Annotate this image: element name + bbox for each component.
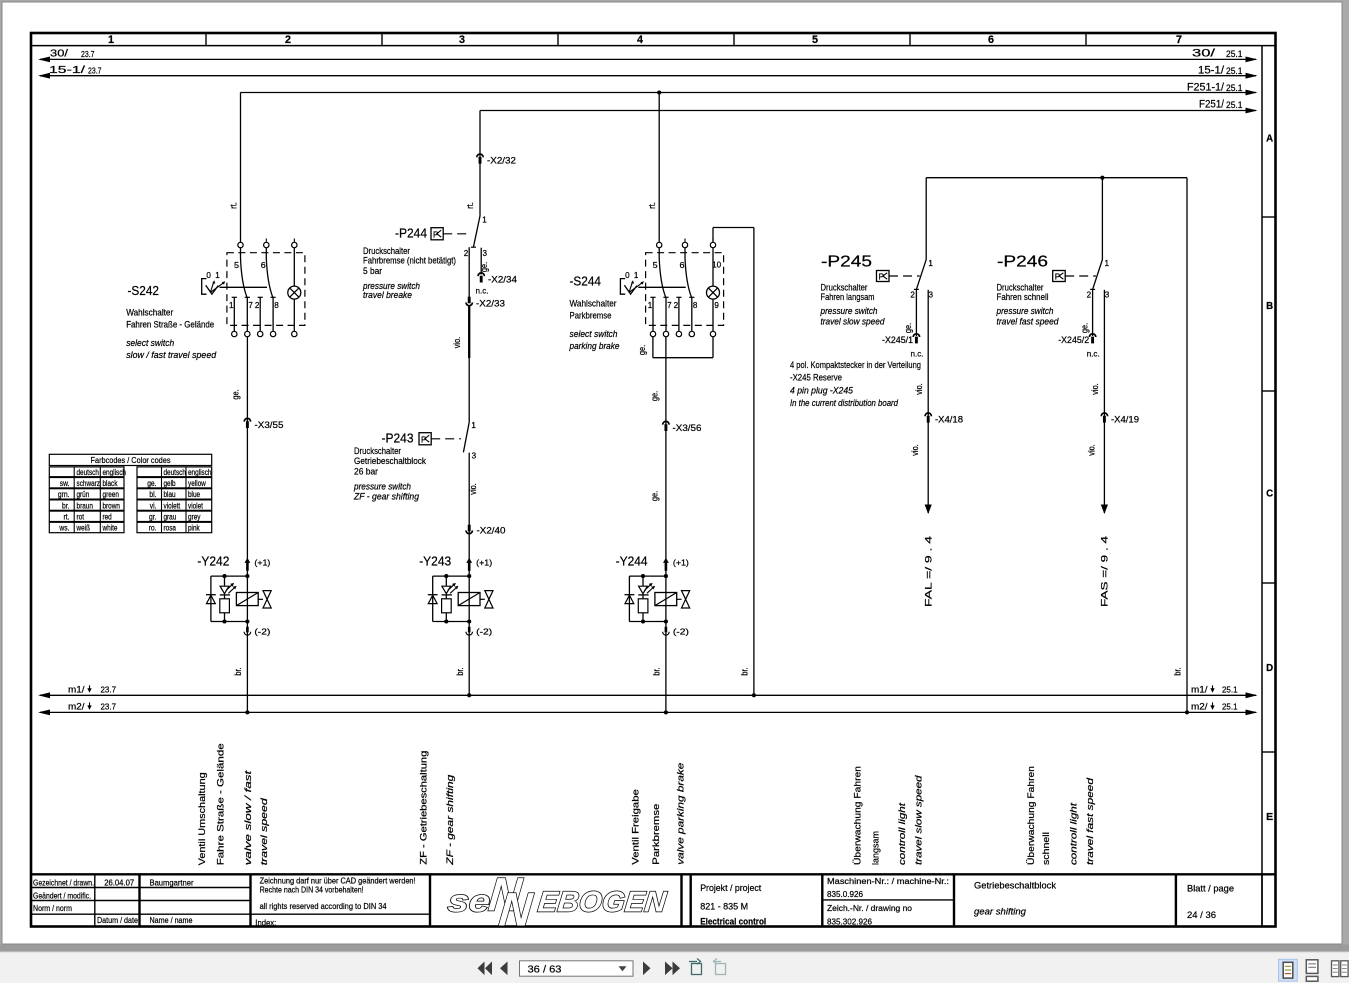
svg-text:ro.: ro. (149, 524, 157, 533)
svg-text:m1/: m1/ (68, 684, 85, 695)
svg-text:30/: 30/ (1192, 48, 1216, 60)
Sennebogen logo (446, 868, 668, 936)
svg-text:2: 2 (255, 301, 260, 310)
svg-text:Parkbremse: Parkbremse (651, 804, 661, 865)
svg-text:-S244: -S244 (570, 274, 602, 289)
valve actuator bowtie (258, 598, 263, 600)
bus m1/ wire (40, 694, 1256, 696)
svg-text:3: 3 (1105, 291, 1110, 300)
svg-text:(-2): (-2) (476, 627, 492, 637)
toolbar previous page button (500, 962, 508, 976)
valve plug (+1) (663, 558, 669, 563)
svg-text:FAS =/ 9 . 4: FAS =/ 9 . 4 (1100, 535, 1111, 607)
svg-text:Rechte nach DIN 34 vorbehalten: Rechte nach DIN 34 vorbehalten! (260, 885, 364, 895)
svg-text:C: C (1266, 488, 1273, 500)
svg-text:select switch: select switch (570, 329, 618, 339)
svg-text:Name / name: Name / name (150, 915, 193, 925)
toolbar last page button (665, 962, 673, 976)
valve bottom rail (211, 621, 248, 623)
svg-text:-P243: -P243 (382, 431, 414, 446)
svg-text:Parkbremse: Parkbremse (570, 311, 612, 321)
switch dashed box (227, 253, 305, 326)
svg-text:gear shifting: gear shifting (974, 907, 1027, 917)
svg-text:white: white (102, 524, 118, 533)
svg-text:vi.: vi. (150, 501, 157, 510)
svg-text:23.7: 23.7 (88, 66, 102, 76)
valve bottom rail (629, 621, 666, 623)
switch blade 6-8 (266, 248, 273, 297)
wire F251-1 corner down to S242 (240, 93, 242, 243)
valve actuator bowtie (480, 598, 485, 600)
column header band line (31, 45, 1276, 47)
svg-text:5: 5 (812, 34, 818, 46)
svg-text:E: E (1266, 811, 1273, 823)
terminal -X3/56 (663, 421, 669, 424)
svg-text:Getriebeschaltblock: Getriebeschaltblock (974, 881, 1056, 891)
svg-text:blue: blue (188, 490, 201, 499)
mechanical coupling line (638, 286, 685, 288)
svg-text:821 - 835 M: 821 - 835 M (700, 902, 748, 912)
svg-text:bl.: bl. (149, 490, 156, 499)
solenoid coil (236, 593, 258, 606)
svg-text:1: 1 (1105, 259, 1110, 268)
page bottom shadow band (0, 945, 1349, 952)
svg-text:br.: br. (455, 667, 465, 675)
svg-text:15-1/: 15-1/ (1198, 65, 1225, 77)
suppressor diode branch (210, 576, 212, 621)
svg-text:25.1: 25.1 (1226, 49, 1243, 60)
svg-text:yellow: yellow (188, 479, 206, 488)
svg-text:Electrical control: Electrical control (700, 917, 766, 927)
switch blade 6-8 (685, 248, 692, 297)
svg-text:pressure switch: pressure switch (353, 481, 411, 491)
svg-text:vio.: vio. (468, 483, 478, 495)
toolbar background (0, 952, 1349, 983)
svg-text:26 bar: 26 bar (354, 466, 378, 476)
view two page icon (1332, 961, 1339, 977)
svg-text:-Y243: -Y243 (419, 554, 451, 569)
svg-text:1: 1 (634, 271, 639, 280)
svg-text:-S242: -S242 (128, 283, 160, 298)
svg-text:select switch: select switch (126, 338, 174, 348)
svg-text:0: 0 (206, 271, 211, 280)
svg-text:-X4/19: -X4/19 (1111, 415, 1139, 425)
row dividers (1262, 216, 1276, 218)
svg-text:violet: violet (188, 501, 204, 510)
view single page icon active (1279, 959, 1298, 981)
svg-text:brown: brown (103, 501, 120, 510)
svg-text:controll light: controll light (1069, 802, 1079, 865)
valve actuator bowtie (677, 598, 682, 600)
lower fixed pins (233, 297, 235, 331)
svg-text:br.: br. (652, 667, 662, 675)
svg-text:travel speed: travel speed (259, 797, 269, 865)
mechanical coupling line (220, 286, 267, 288)
svg-text:3: 3 (483, 249, 488, 258)
svg-text:25.1: 25.1 (1226, 83, 1243, 94)
wire -P246 pin3 down (1103, 290, 1105, 339)
indicator lamp (293, 248, 295, 286)
svg-text:Getriebeschaltblock: Getriebeschaltblock (354, 456, 426, 466)
svg-text:25.1: 25.1 (1226, 100, 1243, 111)
terminal -X4/19 (1101, 413, 1107, 416)
toolbar next page button (643, 962, 651, 976)
svg-text:Index:: Index: (255, 918, 276, 928)
svg-text:2: 2 (674, 301, 679, 310)
svg-text:Fahrbremse (nicht betätigt): Fahrbremse (nicht betätigt) (363, 256, 456, 266)
selector mechanism (620, 279, 625, 295)
svg-text:valve parking brake: valve parking brake (676, 763, 686, 865)
indicator lamp (712, 248, 714, 286)
switch blade 5-7 (659, 248, 666, 297)
svg-text:6: 6 (988, 34, 994, 46)
svg-text:23.7: 23.7 (81, 49, 95, 59)
svg-text:5: 5 (653, 261, 659, 270)
svg-text:controll light: controll light (897, 802, 907, 865)
svg-text:Baumgartner: Baumgartner (150, 877, 194, 887)
LED series resistor (224, 595, 226, 599)
svg-text:pressure switch: pressure switch (996, 306, 1054, 316)
svg-text:7: 7 (1176, 34, 1182, 46)
junction lamp wire to m1 (752, 693, 756, 697)
wire P243 pin3 down to Y243 and m1 (468, 453, 470, 696)
svg-text:-P245: -P245 (821, 254, 872, 271)
svg-text:n.c.: n.c. (476, 286, 489, 296)
svg-text:Farbcodes / Color codes: Farbcodes / Color codes (91, 455, 171, 465)
svg-text:green: green (103, 490, 119, 499)
svg-text:-X2/40: -X2/40 (477, 526, 506, 536)
solenoid coil (458, 593, 480, 606)
svg-text:5 bar: 5 bar (363, 266, 382, 276)
svg-text:ws.: ws. (59, 524, 70, 533)
svg-text:1: 1 (108, 34, 114, 46)
bus F251-1/ wire (240, 92, 1256, 94)
svg-text:rt.: rt. (64, 513, 70, 522)
svg-text:violett: violett (164, 501, 181, 510)
terminal -X2/33 (468, 247, 470, 299)
valve bottom rail (433, 621, 470, 623)
-P245 pin2 stub to terminal (915, 289, 917, 336)
svg-text:langsam: langsam (871, 831, 881, 865)
svg-text:(-2): (-2) (673, 627, 689, 637)
toolbar redo rotate icon (713, 959, 726, 975)
svg-text:3: 3 (929, 291, 934, 300)
svg-text:Zeich.-Nr. / drawing no: Zeich.-Nr. / drawing no (827, 903, 912, 913)
bus 30/ wire (40, 58, 1256, 60)
svg-text:Blatt / page: Blatt / page (1187, 883, 1234, 893)
wire F251-1 junction down to S244 (658, 93, 660, 243)
svg-text:2: 2 (1087, 291, 1092, 300)
svg-text:-X2/32: -X2/32 (487, 156, 516, 166)
svg-text:-X4/18: -X4/18 (935, 415, 963, 425)
svg-text:23.7: 23.7 (101, 684, 117, 694)
svg-text:1: 1 (482, 216, 487, 225)
svg-text:26.04.07: 26.04.07 (104, 877, 134, 887)
svg-text:deutsch: deutsch (164, 468, 186, 477)
svg-text:1: 1 (648, 301, 653, 310)
-P245 symbol box (877, 271, 890, 282)
svg-text:slow / fast travel speed: slow / fast travel speed (126, 350, 217, 360)
svg-text:parking brake: parking brake (569, 341, 620, 351)
svg-text:ge.: ge. (147, 479, 156, 488)
junction Y243 to m1 (467, 693, 471, 697)
svg-text:vio.: vio. (910, 444, 920, 456)
svg-text:2: 2 (910, 291, 915, 300)
wire F251 corner down to P244 (479, 111, 481, 216)
svg-text:deutsch: deutsch (77, 468, 99, 477)
terminal -X4/18 (925, 413, 931, 416)
svg-text:vio.: vio. (1086, 444, 1096, 456)
svg-text:rosa: rosa (164, 524, 177, 533)
svg-text:rt.: rt. (647, 202, 657, 209)
svg-text:F251/: F251/ (1199, 99, 1225, 111)
svg-text:2: 2 (464, 249, 469, 258)
svg-text:2: 2 (285, 34, 291, 46)
svg-text:vio.: vio. (1090, 383, 1100, 395)
svg-text:Druckschalter: Druckschalter (821, 283, 868, 293)
svg-text:4 pol. Kompaktstecker in der V: 4 pol. Kompaktstecker in der Verteilung (790, 360, 921, 370)
valve plug (-2) (468, 627, 471, 633)
wire S244 pin7 down to Y244 and m2 (665, 337, 667, 713)
svg-text:(+1): (+1) (476, 558, 492, 568)
svg-text:Geändert / modific.: Geändert / modific. (33, 890, 91, 900)
svg-text:3: 3 (472, 452, 477, 461)
svg-text:Ventil Umschaltung: Ventil Umschaltung (197, 772, 207, 865)
svg-text:Fahren Straße - Gelände: Fahren Straße - Gelände (126, 319, 214, 329)
svg-text:Datum / date: Datum / date (97, 915, 138, 925)
svg-text:36 / 63: 36 / 63 (528, 963, 562, 975)
svg-text:m2/: m2/ (1191, 701, 1208, 712)
svg-text:7: 7 (248, 301, 253, 310)
terminal -X245/2 n.c. (1089, 334, 1095, 337)
svg-text:Projekt / project: Projekt / project (700, 883, 761, 893)
svg-text:1: 1 (928, 259, 933, 268)
wire to FAS arrow (1103, 422, 1105, 514)
svg-text:6: 6 (261, 261, 266, 270)
svg-text:25.1: 25.1 (1222, 684, 1238, 694)
junction F251-1 to S244 branch (657, 90, 661, 94)
svg-text:Fahre Straße - Gelände: Fahre Straße - Gelände (216, 743, 226, 865)
svg-text:grün: grün (77, 490, 90, 499)
svg-text:englisch: englisch (103, 468, 127, 477)
svg-text:23.7: 23.7 (101, 701, 117, 711)
svg-text:sw.: sw. (60, 479, 70, 488)
svg-text:ge.: ge. (479, 262, 489, 272)
S244 lamp top wire to right rail (712, 228, 714, 243)
svg-text:ZF - gear shifting: ZF - gear shifting (353, 492, 420, 502)
svg-text:grau: grau (164, 513, 177, 522)
svg-text:1: 1 (229, 301, 234, 310)
svg-text:7: 7 (667, 301, 672, 310)
svg-text:8: 8 (693, 301, 698, 310)
svg-text:rt.: rt. (228, 202, 238, 209)
svg-text:6: 6 (680, 261, 685, 270)
switch blade 5-7 (241, 248, 248, 297)
LED series resistor (642, 595, 644, 599)
svg-text:ge.: ge. (231, 389, 241, 399)
svg-text:N: N (497, 883, 535, 936)
lower fixed pins (652, 297, 654, 331)
terminal -X245/1 n.c. (913, 334, 919, 337)
svg-text:ge.: ge. (903, 323, 913, 333)
wire X2/33 down to P243 (468, 306, 470, 423)
svg-text:0: 0 (625, 271, 630, 280)
svg-text:englisch: englisch (188, 468, 212, 477)
svg-text:ge.: ge. (637, 345, 647, 355)
junction Y244 to m2 (664, 710, 668, 714)
wire to FAL arrow (927, 422, 929, 514)
svg-text:pressure switch: pressure switch (820, 306, 878, 316)
svg-text:15-1/: 15-1/ (49, 64, 85, 76)
svg-text:(+1): (+1) (254, 558, 270, 568)
valve top rail (629, 575, 666, 577)
svg-text:Ventil Freigabe: Ventil Freigabe (631, 789, 641, 865)
svg-text:1: 1 (471, 421, 476, 430)
svg-text:FAL =/ 9 . 4: FAL =/ 9 . 4 (924, 535, 935, 607)
svg-text:rt.: rt. (465, 202, 475, 209)
S244 bottom jumper pin1 to pin9 (652, 337, 654, 358)
svg-text:vio.: vio. (452, 337, 462, 349)
svg-text:(-2): (-2) (254, 627, 270, 637)
valve top rail (433, 575, 470, 577)
svg-text:-X245/1: -X245/1 (882, 335, 913, 345)
wire down to -P245 (925, 178, 927, 260)
switch top terminal circles (657, 242, 662, 247)
svg-text:br.: br. (233, 667, 243, 675)
LED branch (224, 576, 226, 586)
toolbar undo rotate icon (689, 959, 702, 975)
svg-text:-X3/55: -X3/55 (255, 420, 284, 430)
svg-text:B: B (1266, 300, 1273, 312)
svg-text:ZF - Getriebeschaltung: ZF - Getriebeschaltung (419, 751, 429, 865)
svg-text:Druckschalter: Druckschalter (997, 283, 1044, 293)
svg-text:-X2/34: -X2/34 (488, 275, 517, 285)
svg-text:travel breake: travel breake (363, 290, 412, 300)
svg-text:Maschinen-Nr.: / machine-Nr.:: Maschinen-Nr.: / machine-Nr.: (827, 876, 949, 886)
svg-text:D: D (1266, 662, 1273, 674)
svg-text:25.1: 25.1 (1222, 701, 1238, 711)
switch bottom terminal circles (650, 331, 655, 336)
svg-text:-X245/2: -X245/2 (1058, 335, 1089, 345)
svg-text:-X245 Reserve: -X245 Reserve (790, 373, 842, 383)
solenoid coil (655, 593, 677, 606)
svg-text:all rights reserved according: all rights reserved according to DIN 34 (260, 901, 387, 911)
svg-text:weiß: weiß (76, 524, 90, 533)
svg-text:4: 4 (637, 34, 644, 46)
svg-text:travel slow speed: travel slow speed (821, 316, 886, 326)
LED branch (445, 576, 447, 586)
svg-text:Gezeichnet / drawn.: Gezeichnet / drawn. (33, 877, 94, 887)
svg-text:schnell: schnell (1041, 832, 1051, 865)
svg-text:valve slow / fast: valve slow / fast (243, 770, 253, 865)
terminal -X2/40 (468, 525, 471, 532)
-P246 symbol box (1053, 271, 1066, 282)
svg-text:5: 5 (234, 261, 240, 270)
svg-text:pink: pink (188, 524, 200, 533)
wire S242 pin7 down to Y242 and m2 (246, 337, 248, 713)
column ticks (205, 33, 207, 46)
P243 symbol box (419, 433, 431, 445)
svg-text:4 pin plug -X245: 4 pin plug -X245 (790, 386, 854, 396)
svg-text:red: red (103, 513, 112, 522)
svg-text:travel fast speed: travel fast speed (1085, 777, 1095, 865)
svg-text:braun: braun (77, 501, 93, 510)
LED series resistor (445, 595, 447, 599)
svg-text:grey: grey (188, 513, 201, 522)
svg-text:rot: rot (77, 513, 85, 522)
LED branch (642, 576, 644, 586)
svg-text:n.c.: n.c. (911, 349, 924, 359)
selector mechanism (202, 279, 207, 295)
svg-text:Norm / norm: Norm / norm (33, 903, 72, 913)
wire down to -P246 (1101, 178, 1103, 260)
bus 15-1/ wire (40, 75, 1256, 77)
svg-text:Wahlschalter: Wahlschalter (126, 307, 173, 317)
svg-text:-Y244: -Y244 (616, 554, 648, 569)
svg-text:25.1: 25.1 (1226, 66, 1243, 77)
svg-text:(+1): (+1) (673, 558, 689, 568)
valve top rail (211, 575, 248, 577)
valve plug (-2) (665, 627, 668, 633)
bus F251/ wire (480, 110, 1256, 112)
switch dashed box (646, 253, 724, 326)
terminal -X2/34 n.c. (478, 273, 484, 276)
row band line (1261, 46, 1263, 927)
svg-text:gr.: gr. (149, 513, 157, 522)
svg-text:Überwachung Fahren: Überwachung Fahren (1026, 766, 1036, 865)
svg-text:black: black (103, 479, 119, 488)
svg-text:travel slow speed: travel slow speed (914, 774, 924, 865)
svg-text:8: 8 (274, 301, 279, 310)
svg-text:30/: 30/ (50, 48, 68, 60)
junction P246 tap (1100, 176, 1104, 180)
svg-text:se: se (446, 884, 492, 919)
terminal -X3/55 (244, 418, 250, 421)
toolbar first page button (478, 962, 485, 976)
svg-text:br.: br. (740, 667, 750, 675)
svg-text:-P244: -P244 (395, 226, 427, 241)
svg-text:-P246: -P246 (997, 254, 1048, 271)
valve plug (-2) (246, 627, 249, 633)
svg-text:n.c.: n.c. (1087, 349, 1100, 359)
svg-text:ge.: ge. (650, 491, 660, 501)
svg-text:Fahren schnell: Fahren schnell (997, 292, 1049, 302)
svg-text:br.: br. (62, 501, 70, 510)
switch bottom terminal circles (232, 331, 237, 336)
title block (31, 874, 1276, 926)
svg-text:-X3/56: -X3/56 (673, 423, 702, 433)
svg-text:Überwachung Fahren: Überwachung Fahren (853, 766, 863, 865)
svg-text:travel fast speed: travel fast speed (997, 316, 1060, 326)
svg-text:F251-1/: F251-1/ (1187, 82, 1225, 94)
switch top terminal circles (238, 242, 243, 247)
svg-text:A: A (1266, 133, 1273, 145)
svg-text:blau: blau (164, 490, 176, 499)
svg-text:vio.: vio. (914, 383, 924, 395)
-P246 pin2 stub to terminal (1092, 289, 1094, 336)
valve plug (+1) (466, 558, 472, 563)
feed rail for P245 P246 (926, 177, 1187, 179)
svg-text:9: 9 (714, 301, 719, 310)
svg-text:m2/: m2/ (68, 701, 85, 712)
svg-text:br.: br. (1173, 667, 1183, 675)
svg-text:Druckschalter: Druckschalter (354, 446, 401, 456)
suppressor diode branch (432, 576, 434, 621)
color code table (49, 454, 211, 532)
svg-text:ZF - gear shifting: ZF - gear shifting (445, 774, 455, 866)
svg-text:24 / 36: 24 / 36 (1187, 910, 1216, 920)
junction Y242 to m2 (245, 710, 249, 714)
